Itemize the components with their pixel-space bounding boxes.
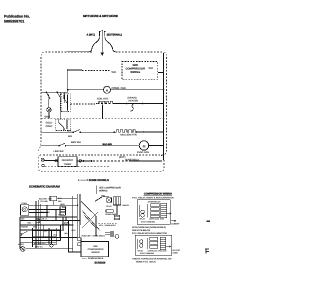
condenser fan row wire	[68, 89, 164, 91]
svg-text:Publication No.: Publication No.	[4, 15, 30, 19]
svg-text:WH: WH	[65, 232, 69, 235]
svg-text:GRN: GRN	[45, 116, 51, 119]
svg-text:SCHEMATIC DIAGRAM: SCHEMATIC DIAGRAM	[29, 184, 60, 188]
svg-text:THERM: THERM	[21, 225, 28, 228]
mullion heater row wire	[41, 131, 164, 133]
junction dots lamp row	[46, 92, 48, 94]
defrost timer terminal 2	[42, 164, 44, 166]
right bus wire	[163, 53, 165, 160]
junction dots schematic	[19, 205, 80, 239]
svg-text:SOME MDLS.: SOME MDLS.	[125, 159, 140, 162]
svg-text:TO LINE: TO LINE	[40, 200, 48, 203]
svg-text:+ ⋯⋯ = SOME MODELS: + ⋯⋯ = SOME MODELS	[78, 179, 109, 182]
cold control label	[46, 121, 54, 128]
diagonal wire 4	[82, 212, 98, 228]
panel box 1	[137, 200, 170, 225]
cold control box (dashed)	[55, 119, 70, 130]
line cord plug prongs	[99, 30, 106, 36]
compressor box schematic	[81, 242, 108, 257]
rail A3	[40, 204, 42, 228]
ground wire	[101, 37, 103, 53]
diagonal wire 3	[84, 215, 96, 228]
wire stub inner	[64, 92, 66, 103]
rail A	[35, 201, 37, 248]
svg-text:+ ••• = SOME MODELS: + ••• = SOME MODELS	[82, 257, 104, 260]
wire color labels	[67, 130, 72, 139]
svg-text:DEFROST: DEFROST	[62, 159, 74, 162]
svg-text:BLK: BLK	[54, 233, 58, 236]
no capacitor label	[173, 249, 181, 255]
svg-text:CABINET: CABINET	[171, 222, 180, 225]
dense mesh verticals	[33, 225, 61, 247]
svg-text:OVERLOAD: OVERLOAD	[149, 218, 160, 221]
rail D	[80, 194, 82, 225]
box1 internals	[139, 203, 171, 218]
svg-text:OVERLOAD: OVERLOAD	[148, 250, 159, 253]
svg-text:WH: WH	[112, 71, 116, 74]
coil heater resistor	[98, 101, 116, 103]
condenser fan motor	[104, 86, 111, 93]
light bulb	[47, 108, 51, 112]
svg-text:RUN CAP.: RUN CAP.	[159, 250, 168, 253]
svg-text:USED: USED	[173, 252, 179, 255]
panel box 2	[135, 235, 172, 255]
relay assembly angled wire	[95, 197, 109, 202]
bottom note	[132, 258, 172, 264]
start relay box	[107, 198, 112, 203]
svg-text:ORG: ORG	[60, 203, 65, 206]
svg-text:★NOTE: OVERLOAD IS INTERNAL ON: ★NOTE: OVERLOAD IS INTERNAL ON	[132, 258, 172, 261]
svg-text:M: M	[143, 144, 146, 148]
svg-text:RELAY: RELAY	[139, 218, 146, 221]
compressor box (dashed)	[122, 62, 158, 80]
defrost timer box	[58, 157, 77, 167]
svg-text:SOME P.T.C. MDLS.: SOME P.T.C. MDLS.	[136, 261, 156, 264]
rail B	[76, 194, 78, 238]
wire box to right bus	[158, 72, 164, 74]
direction arrow	[171, 220, 176, 222]
svg-text:COMPRESSOR WIRING: COMPRESSOR WIRING	[144, 193, 172, 196]
svg-text:START RELAY: START RELAY	[148, 201, 161, 204]
svg-text:MTR: MTR	[33, 226, 38, 229]
wire dashed to cabinet	[99, 222, 117, 224]
schematic lamp	[20, 247, 25, 252]
thermostat feed	[29, 205, 78, 212]
svg-text:P.T.C. RELAY, START & RUN CAPA: P.T.C. RELAY, START & RUN CAPACITOR	[132, 197, 174, 200]
middle text lines	[132, 226, 167, 235]
drain heater terminals	[126, 103, 128, 105]
rail C	[78, 194, 80, 238]
ground arrow	[100, 53, 104, 57]
svg-text:WIRING: WIRING	[91, 251, 99, 254]
svg-text:TIMER: TIMER	[58, 214, 65, 217]
svg-text:BLK: BLK	[67, 130, 72, 133]
wire evap fan to bus	[149, 145, 164, 147]
line switch row wire	[41, 145, 139, 147]
mesh circle	[50, 244, 53, 247]
publication number block	[4, 15, 30, 24]
schematic scatter labels	[21, 218, 71, 249]
verticals	[20, 205, 63, 249]
svg-text:BLK: BLK	[61, 229, 65, 232]
svg-text:WIRING: WIRING	[99, 190, 108, 193]
line cord right wire	[105, 38, 116, 52]
svg-text:LINE SW.: LINE SW.	[54, 150, 65, 153]
cold control switch	[59, 120, 67, 131]
svg-text:SEE: SEE	[93, 245, 98, 248]
box2 internals	[137, 237, 170, 249]
svg-text:RELAY: RELAY	[138, 250, 145, 253]
row lower	[20, 230, 77, 249]
svg-text:MRT13CRE & MRT13CRB: MRT13CRE & MRT13CRB	[83, 14, 119, 18]
svg-text:START WINDING: START WINDING	[140, 252, 155, 255]
mullion heater terminals	[113, 131, 115, 133]
diagonal wire 2	[82, 211, 100, 231]
drain heater label	[128, 97, 139, 103]
drain heater wire	[127, 103, 142, 105]
rail E	[73, 196, 81, 252]
dashed row lower door	[45, 165, 111, 167]
lamp row wire	[41, 91, 68, 93]
svg-text:RUN CAP. - SOME MDLS.: RUN CAP. - SOME MDLS.	[82, 234, 106, 237]
svg-text:(EXTERNAL): (EXTERNAL)	[107, 34, 122, 37]
svg-text:START WINDING: START WINDING	[141, 221, 156, 224]
line cord left wire	[67, 38, 100, 52]
rail A2	[37, 200, 39, 245]
svg-text:CAB. LT.: CAB. LT.	[41, 218, 49, 221]
stray mark 2	[205, 249, 209, 254]
svg-text:BRN: BRN	[62, 206, 67, 209]
svg-text:COMPRESSOR: COMPRESSOR	[88, 248, 104, 251]
svg-text:TMR.: TMR.	[27, 221, 32, 224]
diagonal wire 1	[81, 201, 96, 236]
wire some-models dashed	[93, 160, 130, 162]
schematic switch	[21, 231, 27, 234]
svg-text:5995358701: 5995358701	[4, 20, 24, 24]
svg-text:NO CAP.: NO CAP.	[173, 249, 181, 252]
svg-text:COND. FAN: COND. FAN	[112, 87, 126, 90]
wire compressor feed	[68, 69, 111, 72]
door outline (dashed)	[39, 155, 164, 171]
mullion row switch	[73, 132, 75, 134]
svg-text:A (INT.): A (INT.)	[87, 34, 96, 37]
terminal left of timer box	[55, 159, 58, 162]
svg-text:SW: SW	[44, 230, 47, 233]
svg-text:TIMER: TIMER	[64, 163, 72, 166]
svg-text:GRN YEL: GRN YEL	[35, 245, 43, 248]
compressor terminal small boxes	[78, 238, 81, 241]
defrost timer out wire	[77, 160, 92, 162]
svg-text:WITH OVERLOAD (SOME MODELS): WITH OVERLOAD (SOME MODELS)	[132, 226, 166, 229]
svg-text:RELAY: RELAY	[123, 204, 130, 207]
evaporator fan motor	[139, 141, 148, 150]
schematic small labels	[18, 197, 69, 246]
thermostat box (dashed)	[61, 94, 70, 112]
svg-text:WH: WH	[149, 67, 153, 70]
thermostat switch	[64, 95, 68, 111]
dense mesh horizontals	[33, 231, 61, 245]
wire stub	[102, 105, 104, 119]
svg-text:PTC: PTC	[101, 195, 105, 198]
cold control bulb box	[21, 205, 29, 216]
overload box	[106, 210, 113, 213]
timer component box	[60, 207, 66, 215]
cabinet outline (dashed)	[39, 52, 167, 155]
wire to drain heater	[116, 103, 126, 105]
svg-text:RUN: RUN	[160, 218, 165, 221]
defrost timer feed wire	[44, 160, 58, 162]
svg-text:COLD: COLD	[21, 202, 27, 205]
svg-text:WH: WH	[68, 135, 72, 138]
svg-text:EVAP. FAN: EVAP. FAN	[137, 151, 149, 154]
row filament	[20, 217, 79, 225]
door switch 1	[46, 92, 50, 107]
svg-text:HTR. - SOME MDLS.: HTR. - SOME MDLS.	[99, 224, 117, 227]
svg-text:P.T.C. RELAY WITH RUN CAPACITO: P.T.C. RELAY WITH RUN CAPACITOR	[132, 232, 167, 235]
svg-text:HEATER: HEATER	[129, 100, 139, 103]
svg-text:DEF. HTR: DEF. HTR	[41, 211, 51, 214]
capacitor symbol	[105, 231, 113, 237]
rail F	[69, 221, 82, 253]
see compressor wiring callout	[96, 186, 98, 195]
svg-text:WIRING: WIRING	[130, 71, 140, 74]
schematic component box small	[63, 217, 66, 221]
svg-text:SEE NOTE BELOW: SEE NOTE BELOW	[132, 229, 150, 232]
svg-text:M: M	[106, 88, 109, 92]
bus junction dots	[67, 69, 164, 146]
drain heater squiggle	[130, 104, 133, 111]
svg-text:OVLD: OVLD	[106, 205, 112, 208]
wire drain heater to bus	[143, 103, 164, 105]
coil heater wire	[70, 103, 98, 106]
line switch	[58, 145, 59, 146]
svg-text:BRN WH: BRN WH	[71, 141, 81, 144]
left bus wire	[67, 70, 69, 92]
svg-text:RED: RED	[72, 229, 76, 232]
run capacitor	[116, 205, 118, 215]
svg-text:BLK WH ORG: BLK WH ORG	[34, 242, 46, 245]
svg-text:ECR2029: ECR2029	[95, 261, 106, 264]
wire color labels schematic	[61, 229, 76, 235]
svg-text:COIL HTR.: COIL HTR.	[97, 98, 109, 101]
stray mark 1	[206, 221, 210, 222]
svg-text:CONT.: CONT.	[46, 125, 54, 128]
svg-text:BLK-WH: BLK-WH	[103, 143, 113, 146]
door switch 2	[57, 92, 60, 118]
labels ext some models	[119, 156, 140, 161]
svg-text:MULLION HTR.: MULLION HTR.	[120, 133, 137, 136]
defrost timer terminal	[41, 158, 44, 161]
svg-text:WH: WH	[58, 200, 62, 203]
schematic network	[20, 194, 100, 252]
svg-text:DEF.: DEF.	[21, 218, 25, 221]
relay box hatched	[113, 197, 120, 205]
svg-text:SEE COMPRESSOR: SEE COMPRESSOR	[99, 187, 121, 190]
svg-text:LIGHT: LIGHT	[18, 243, 25, 246]
svg-text:MTR: MTR	[64, 222, 69, 225]
compartment divider (dashed)	[41, 118, 167, 120]
mullion heater resistor	[115, 130, 137, 132]
